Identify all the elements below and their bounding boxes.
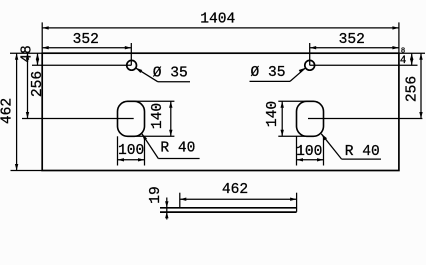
cutout left (sink, R40) <box>118 101 145 136</box>
panel outline <box>42 53 399 170</box>
dim 100 right <box>296 144 323 162</box>
cutout centre line left <box>22 118 134 120</box>
bottom edge extension line <box>11 170 43 172</box>
dim 352 left <box>42 32 131 49</box>
panel edge extensions up for 1404 <box>42 22 399 53</box>
leader R40 right <box>321 134 381 160</box>
svg-text:1404: 1404 <box>200 11 235 27</box>
dim 100 right extension lines <box>297 136 324 165</box>
svg-text:Ø 35: Ø 35 <box>250 65 285 81</box>
dim 140 left extension lines <box>131 101 174 136</box>
dim 140 left <box>150 101 173 136</box>
cutout centre line right <box>308 118 422 120</box>
leader R40 left <box>142 134 200 159</box>
section view right end cap / extension <box>296 193 298 212</box>
section view plank top line <box>160 207 297 209</box>
faucet centre line left <box>32 64 131 66</box>
svg-text:140: 140 <box>150 103 166 129</box>
svg-text:352: 352 <box>339 32 365 48</box>
svg-text:256: 256 <box>30 71 46 97</box>
dim 1404 <box>42 11 399 29</box>
svg-text:462: 462 <box>0 98 16 124</box>
top edge extension line <box>10 52 425 54</box>
svg-text:256: 256 <box>405 76 421 102</box>
leader Ø35 right <box>250 65 306 81</box>
section view left extension <box>179 193 181 208</box>
dim 462 left <box>0 53 18 170</box>
dim 352 right <box>310 32 399 49</box>
dim 19 <box>148 186 169 219</box>
dim 100 left extension lines <box>118 136 145 165</box>
svg-text:352: 352 <box>73 32 99 48</box>
svg-text:4: 4 <box>400 55 406 67</box>
svg-text:140: 140 <box>265 101 281 127</box>
cutout right (sink, R40) <box>297 101 324 136</box>
section view plank bottom line <box>160 211 297 213</box>
dim 462 bottom <box>180 182 297 201</box>
hole left Ø35 <box>127 60 137 70</box>
dim 140 right extension lines <box>278 101 309 136</box>
dim 100 left <box>118 143 145 162</box>
dim 48 left <box>20 45 40 65</box>
hole right vertical extension <box>309 43 311 65</box>
dim 256 left <box>26 53 46 118</box>
svg-text:R 40: R 40 <box>160 140 195 156</box>
hole right Ø35 <box>305 60 315 70</box>
svg-text:100: 100 <box>296 144 322 160</box>
faucet centre line right <box>310 64 418 66</box>
svg-text:19: 19 <box>148 186 164 204</box>
dim 140 right <box>265 101 284 136</box>
hole left vertical extension <box>130 43 132 65</box>
dim 256 right <box>405 53 423 118</box>
svg-text:Ø 35: Ø 35 <box>153 66 188 82</box>
leader Ø35 left <box>135 66 190 82</box>
svg-text:462: 462 <box>222 182 248 198</box>
svg-text:R 40: R 40 <box>345 144 380 160</box>
svg-text:100: 100 <box>118 143 144 159</box>
dim 48 right <box>400 48 414 68</box>
